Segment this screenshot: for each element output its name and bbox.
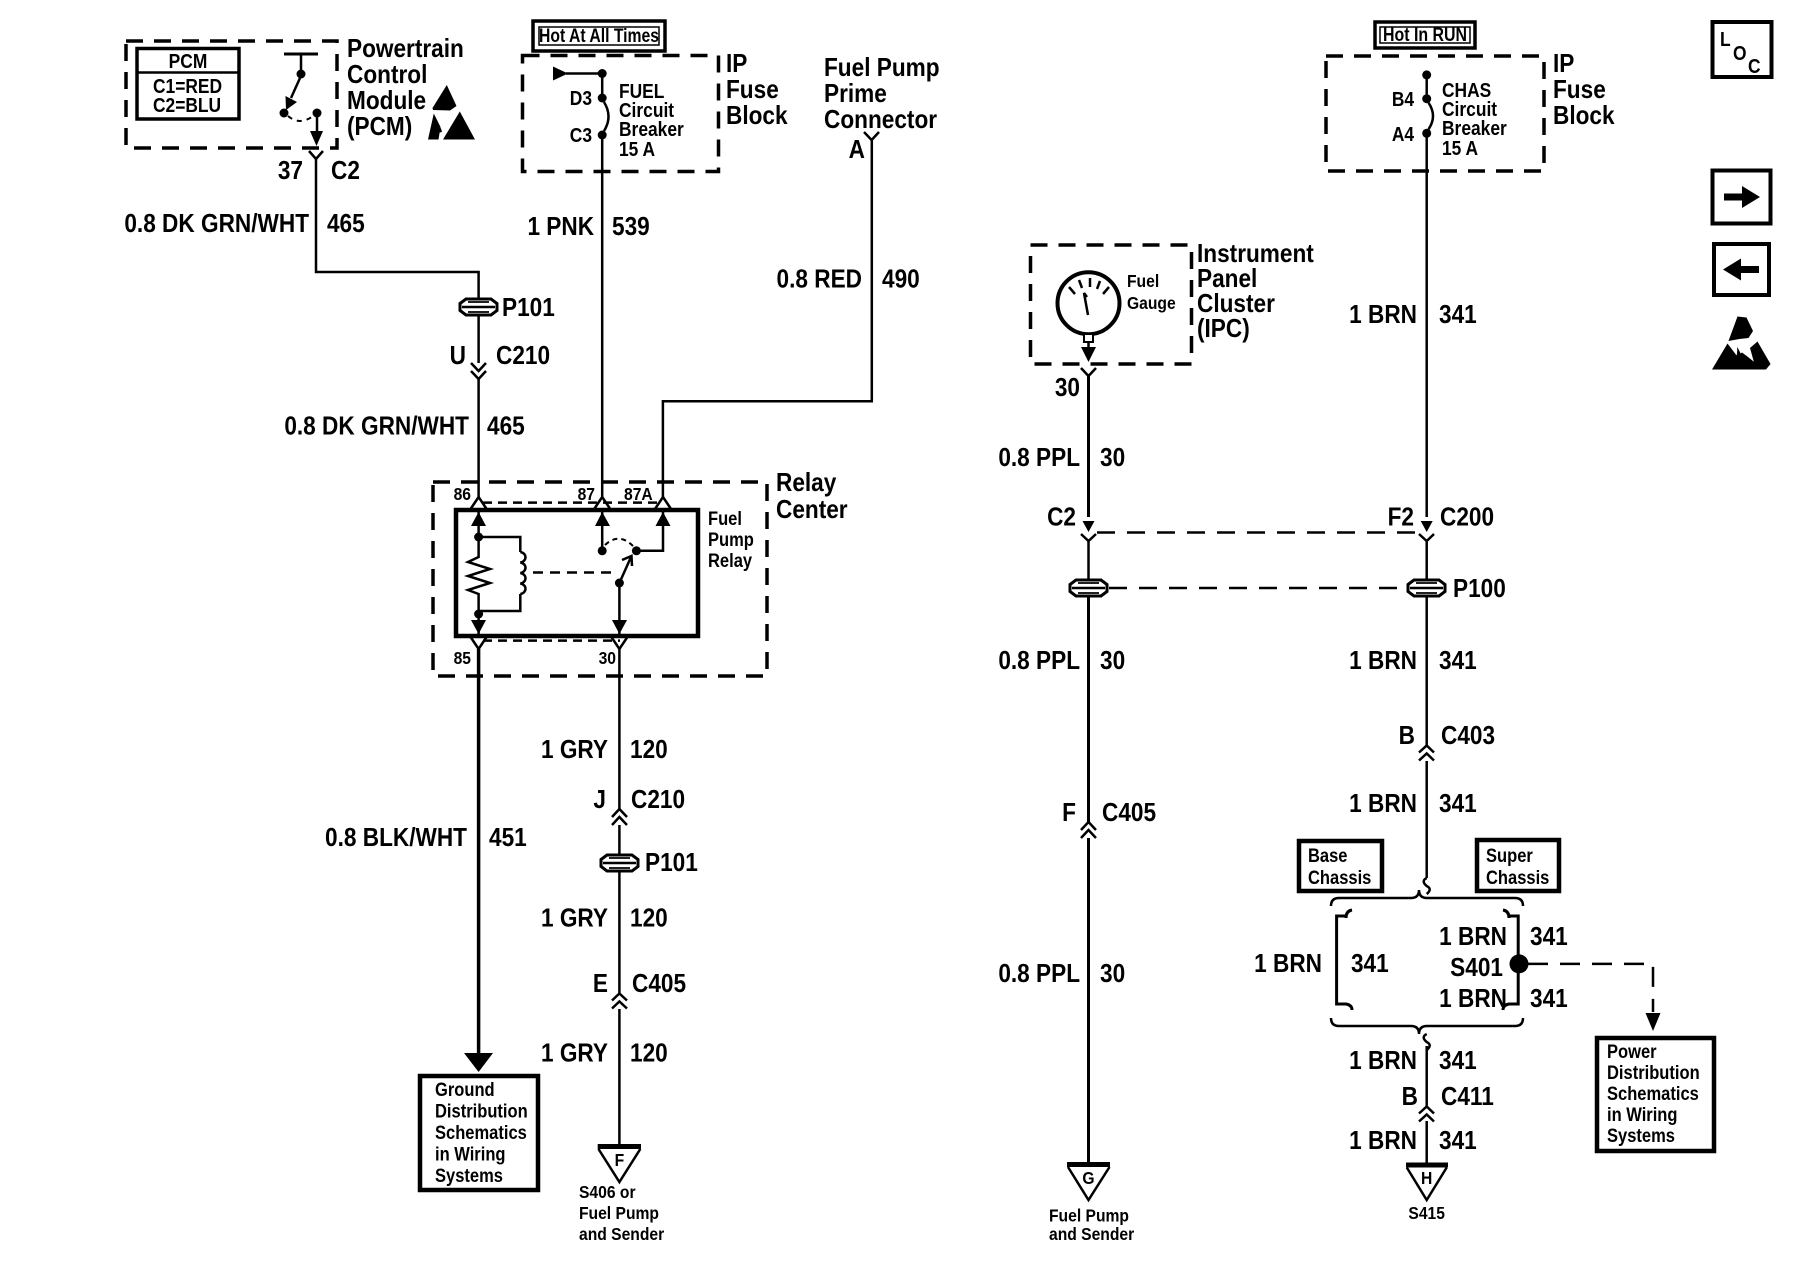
svg-text:(IPC): (IPC)	[1197, 315, 1250, 344]
svg-text:Module: Module	[347, 87, 426, 116]
label 1 BRN 341 (base chassis)	[1254, 950, 1389, 979]
svg-text:(PCM): (PCM)	[347, 113, 412, 142]
destination triangle G	[1067, 1165, 1110, 1201]
label 0.8 PPL 30 (1)	[998, 444, 1125, 473]
wire to P101	[618, 825, 621, 855]
wire C2 to P100	[1087, 541, 1090, 580]
label Powertrain Control Module (PCM)	[347, 35, 464, 142]
wire 1 BRN 341 (breaker to C200)	[1425, 133, 1428, 517]
wire 0.8 PPL 30 (P100 to C405)	[1087, 596, 1090, 822]
svg-text:IP: IP	[726, 50, 747, 79]
inductor L relay coil	[479, 537, 526, 611]
svg-text:1 PNK: 1 PNK	[527, 213, 594, 242]
node coil bottom junction	[474, 610, 483, 619]
svg-text:D3: D3	[570, 87, 592, 109]
forward arrow icon	[1713, 171, 1771, 224]
svg-text:O: O	[1733, 42, 1747, 64]
Instrument Panel Cluster dashed box	[1031, 245, 1192, 364]
svg-text:Super: Super	[1486, 845, 1533, 866]
node contact 87A	[632, 546, 641, 555]
super chassis bracket	[1503, 910, 1518, 1010]
pin 87A chevron	[655, 497, 671, 509]
svg-text:L: L	[1720, 28, 1731, 50]
svg-text:Fuse: Fuse	[726, 76, 779, 105]
pin 85 chevron	[471, 637, 487, 649]
svg-text:Center: Center	[776, 496, 848, 525]
label 1 PNK 539	[527, 213, 649, 242]
svg-text:S415: S415	[1408, 1203, 1445, 1223]
svg-text:1 BRN: 1 BRN	[1439, 985, 1507, 1014]
wire 465 to relay pin 86	[477, 379, 480, 497]
svg-text:0.8 DK GRN/WHT: 0.8 DK GRN/WHT	[124, 210, 309, 239]
svg-text:Fuel Pump: Fuel Pump	[579, 1203, 659, 1223]
pass-through grommet P101 (upper)	[460, 294, 555, 323]
svg-text:Connector: Connector	[824, 106, 938, 135]
P100 dashed link	[1109, 587, 1407, 590]
PCM internal switch	[280, 54, 324, 146]
svg-text:Gauge: Gauge	[1127, 293, 1176, 313]
pass-through grommet P101 (lower)	[601, 849, 698, 878]
svg-text:1 BRN: 1 BRN	[1349, 301, 1417, 330]
pass-through grommet P100 (left)	[1070, 580, 1107, 596]
svg-text:30: 30	[599, 648, 616, 668]
svg-text:87A: 87A	[624, 484, 653, 504]
svg-text:1 BRN: 1 BRN	[1349, 790, 1417, 819]
svg-text:1 BRN: 1 BRN	[1439, 923, 1507, 952]
wire F2 to P100	[1425, 541, 1428, 580]
feed arrow	[553, 67, 607, 81]
label Fuel Gauge	[1127, 271, 1176, 313]
svg-text:Chassis: Chassis	[1486, 867, 1549, 888]
label 1 GRY 120 (3)	[541, 1039, 668, 1068]
label Fuel Pump and Sender	[1049, 1205, 1135, 1244]
destination triangle F	[598, 1147, 641, 1183]
svg-text:G: G	[1082, 1168, 1094, 1188]
ESD symbol small (next to Module)	[433, 85, 457, 111]
svg-text:0.8 PPL: 0.8 PPL	[998, 960, 1080, 989]
svg-text:0.8 BLK/WHT: 0.8 BLK/WHT	[325, 824, 467, 853]
Relay Center dashed box	[433, 482, 767, 676]
label 0.8 RED 490	[777, 265, 920, 294]
wire 0.8 PPL 30 (IPC to C200)	[1087, 376, 1090, 517]
svg-text:B: B	[1399, 722, 1415, 751]
splice group bottom brace	[1331, 1018, 1523, 1050]
svg-text:F2: F2	[1388, 503, 1414, 532]
pass-through grommet P100 (right)	[1408, 575, 1506, 604]
ground arrowhead	[464, 1053, 493, 1072]
svg-text:37: 37	[278, 157, 303, 186]
svg-text:120: 120	[630, 904, 668, 933]
label 0.8 BLK/WHT 451	[325, 824, 527, 853]
IP fuse block dashed box (right)	[1326, 56, 1544, 171]
svg-text:30: 30	[1100, 960, 1125, 989]
back arrow icon	[1714, 244, 1769, 295]
svg-text:Chassis: Chassis	[1308, 867, 1371, 888]
svg-text:30: 30	[1100, 444, 1125, 473]
svg-text:86: 86	[454, 484, 471, 504]
svg-text:Distribution: Distribution	[435, 1100, 528, 1121]
svg-text:Pump: Pump	[708, 529, 754, 550]
in-line connector B C403	[1399, 722, 1495, 761]
pin 87 chevron	[594, 497, 610, 509]
wire 0.8 RED 490 to relay pin 87A	[663, 140, 872, 497]
wire 465 upper (PCM to P101)	[316, 159, 479, 299]
svg-text:1 BRN: 1 BRN	[1349, 1047, 1417, 1076]
svg-text:30: 30	[1055, 374, 1080, 403]
svg-text:Schematics: Schematics	[435, 1122, 527, 1143]
svg-text:Prime: Prime	[824, 80, 887, 109]
label Instrument Panel Cluster (IPC)	[1197, 240, 1314, 344]
svg-text:1 BRN: 1 BRN	[1349, 647, 1417, 676]
svg-text:Control: Control	[347, 61, 427, 90]
svg-text:0.8 PPL: 0.8 PPL	[998, 444, 1080, 473]
Base Chassis box	[1299, 841, 1382, 891]
wire pin 87A internal lead	[636, 510, 670, 551]
svg-text:341: 341	[1530, 985, 1568, 1014]
IP fuse block dashed box (left)	[523, 56, 719, 172]
wire 1 GRY 120 (to fuel pump)	[618, 1009, 621, 1146]
svg-text:120: 120	[630, 736, 668, 765]
in-line connector E C405	[593, 970, 686, 1009]
dashed link S401 to power distribution note	[1528, 964, 1661, 1031]
wire 1 GRY 120 (P101 to E C405)	[618, 871, 621, 994]
svg-text:Fuel: Fuel	[708, 508, 742, 529]
label Relay Center	[776, 469, 848, 525]
LOC icon	[1713, 22, 1772, 77]
svg-text:Block: Block	[726, 102, 788, 131]
wire pin 85 internal lead	[471, 593, 486, 634]
label 0.8 DK GRN/WHT 465 (upper)	[124, 210, 364, 239]
label S406 or Fuel Pump and Sender	[579, 1182, 665, 1244]
svg-text:341: 341	[1439, 1047, 1477, 1076]
ESD symbol large (next to PCM)	[428, 112, 475, 140]
svg-text:IP: IP	[1553, 50, 1574, 79]
svg-text:C: C	[1748, 55, 1761, 77]
svg-text:C3: C3	[570, 124, 592, 146]
svg-text:341: 341	[1439, 790, 1477, 819]
in-line connector J C210	[593, 786, 685, 825]
splice S401 dot	[1510, 954, 1529, 973]
labels 1 BRN 341 / S401 (super chassis)	[1439, 923, 1568, 1014]
svg-text:in Wiring: in Wiring	[435, 1143, 506, 1164]
wire pin 86 internal lead	[471, 510, 486, 558]
wire 1 BRN 341 (C403 to chassis split)	[1425, 761, 1428, 878]
resistor R (relay suppression)	[468, 557, 490, 594]
label 0.8 PPL 30 (2)	[998, 647, 1125, 676]
fuel pump relay box	[456, 510, 698, 636]
svg-text:F: F	[1062, 799, 1076, 828]
fuel gauge	[1058, 272, 1120, 362]
svg-text:in Wiring: in Wiring	[1607, 1104, 1678, 1125]
svg-text:P100: P100	[1453, 575, 1506, 604]
svg-text:465: 465	[487, 412, 525, 441]
svg-text:Hot At All Times: Hot At All Times	[539, 26, 659, 47]
wire 1 BRN 341 (C411 to S415)	[1425, 1121, 1428, 1165]
svg-text:U: U	[450, 342, 466, 371]
svg-text:539: 539	[612, 213, 650, 242]
svg-text:C2: C2	[1047, 503, 1076, 532]
splice group top brace	[1331, 878, 1523, 906]
relay connector pin line top	[483, 501, 663, 504]
wire 1 PNK 539 to relay pin 87	[601, 135, 604, 497]
wire 0.8 PPL 30 (C405 to fuel pump)	[1087, 838, 1090, 1164]
svg-text:341: 341	[1439, 1127, 1477, 1156]
svg-text:Distribution: Distribution	[1607, 1062, 1700, 1083]
pin 86 chevron	[471, 497, 487, 509]
connector pin A chevron	[849, 132, 879, 164]
relay actuation dashed link	[533, 571, 613, 574]
label Fuel Pump Relay	[708, 508, 754, 571]
label 1 BRN 341 (1)	[1349, 301, 1477, 330]
connector F2 at C200	[1388, 503, 1494, 541]
svg-text:1 GRY: 1 GRY	[541, 904, 608, 933]
wire below splice group	[1425, 1046, 1428, 1107]
in-line connector U C210	[450, 315, 550, 379]
svg-text:C210: C210	[496, 342, 550, 371]
in-line connector F C405	[1062, 799, 1156, 838]
svg-text:Systems: Systems	[1607, 1125, 1675, 1146]
Hot In RUN label box	[1375, 22, 1475, 48]
svg-text:0.8 PPL: 0.8 PPL	[998, 647, 1080, 676]
svg-text:Hot In RUN: Hot In RUN	[1383, 25, 1467, 46]
svg-text:H: H	[1421, 1168, 1432, 1188]
svg-text:P101: P101	[502, 294, 555, 323]
connector C2 at C200	[1047, 503, 1096, 541]
svg-text:Ground: Ground	[435, 1079, 495, 1100]
PCM module dashed box	[126, 41, 337, 148]
CHAS circuit breaker 15A	[1392, 70, 1507, 159]
svg-text:1 GRY: 1 GRY	[541, 736, 608, 765]
svg-text:Powertrain: Powertrain	[347, 35, 464, 64]
svg-text:341: 341	[1351, 950, 1389, 979]
svg-text:Fuse: Fuse	[1553, 76, 1606, 105]
C200 dashed connector line	[1097, 531, 1419, 534]
svg-text:87: 87	[578, 484, 595, 504]
svg-text:341: 341	[1530, 923, 1568, 952]
svg-text:C403: C403	[1441, 722, 1495, 751]
svg-text:1 GRY: 1 GRY	[541, 1039, 608, 1068]
svg-text:A: A	[849, 136, 865, 165]
in-line connector B C411	[1402, 1083, 1494, 1122]
label 1 BRN 341 (2)	[1349, 647, 1477, 676]
svg-text:120: 120	[630, 1039, 668, 1068]
svg-text:1 BRN: 1 BRN	[1349, 1127, 1417, 1156]
svg-text:A4: A4	[1392, 123, 1415, 145]
wire pin 30 internal lead	[612, 583, 627, 634]
svg-text:and Sender: and Sender	[579, 1224, 665, 1244]
PCM pin 37 connector C2 chevron	[278, 151, 360, 185]
svg-text:C2: C2	[331, 157, 360, 186]
svg-text:J: J	[593, 786, 606, 815]
svg-text:451: 451	[489, 824, 527, 853]
svg-text:Fuel Pump: Fuel Pump	[824, 54, 940, 83]
svg-text:C2=BLU: C2=BLU	[153, 94, 221, 116]
IPC pin 30 chevron	[1055, 368, 1096, 402]
base chassis bracket	[1337, 910, 1352, 1010]
svg-text:Systems: Systems	[435, 1165, 503, 1186]
switch SW relay armature	[615, 556, 632, 588]
svg-text:15 A: 15 A	[1442, 137, 1479, 159]
svg-text:Block: Block	[1553, 102, 1615, 131]
svg-text:E: E	[593, 970, 608, 999]
label 0.8 PPL 30 (3)	[998, 960, 1125, 989]
destination triangle H	[1406, 1165, 1448, 1200]
label 1 BRN 341 (3)	[1349, 790, 1477, 819]
label 1 GRY 120 (1)	[541, 736, 668, 765]
FUEL circuit breaker 15A	[570, 74, 684, 161]
label IP Fuse Block (right)	[1553, 50, 1615, 131]
svg-text:15 A: 15 A	[619, 138, 656, 160]
svg-text:Base: Base	[1308, 845, 1348, 866]
svg-text:PCM: PCM	[169, 50, 208, 72]
label 1 BRN 341 (4)	[1349, 1047, 1477, 1076]
PCM connector id box	[137, 49, 239, 120]
svg-text:Fuel Pump: Fuel Pump	[1049, 1205, 1129, 1225]
Ground Distribution note box	[420, 1076, 538, 1190]
svg-text:C405: C405	[632, 970, 686, 999]
svg-text:Schematics: Schematics	[1607, 1083, 1699, 1104]
svg-text:and Sender: and Sender	[1049, 1224, 1135, 1244]
svg-text:341: 341	[1439, 301, 1477, 330]
svg-text:F: F	[615, 1150, 625, 1170]
label 0.8 DK GRN/WHT 465 (lower)	[284, 412, 524, 441]
svg-text:S401: S401	[1450, 954, 1503, 983]
svg-text:490: 490	[882, 265, 920, 294]
svg-text:C405: C405	[1102, 799, 1156, 828]
svg-text:0.8 DK GRN/WHT: 0.8 DK GRN/WHT	[284, 412, 469, 441]
svg-text:C210: C210	[631, 786, 685, 815]
svg-text:341: 341	[1439, 647, 1477, 676]
wire 1 GRY 120 (relay to J C210)	[618, 649, 621, 809]
svg-text:85: 85	[454, 648, 471, 668]
svg-text:Power: Power	[1607, 1041, 1657, 1062]
svg-text:P101: P101	[645, 849, 698, 878]
Super Chassis box	[1477, 840, 1559, 891]
label Fuel Pump Prime Connector	[824, 54, 940, 135]
svg-text:1 BRN: 1 BRN	[1254, 950, 1322, 979]
svg-text:Fuel: Fuel	[1127, 271, 1159, 291]
relay connector pin line bottom	[483, 639, 620, 642]
svg-text:465: 465	[327, 210, 365, 239]
Power Distribution note box	[1597, 1038, 1714, 1151]
svg-text:C411: C411	[1441, 1083, 1494, 1112]
svg-text:C200: C200	[1440, 503, 1494, 532]
wire pin 87 internal lead	[595, 510, 610, 548]
pin 30 chevron	[611, 637, 627, 649]
node contact 87	[598, 546, 607, 555]
svg-text:30: 30	[1100, 647, 1125, 676]
node coil top junction	[474, 533, 483, 542]
svg-text:0.8 RED: 0.8 RED	[777, 265, 862, 294]
wire 0.8 BLK/WHT 451	[477, 649, 481, 1055]
svg-text:Relay: Relay	[776, 469, 837, 498]
svg-text:S406 or: S406 or	[579, 1182, 636, 1202]
svg-text:B: B	[1402, 1083, 1418, 1112]
label IP Fuse Block (left)	[726, 50, 788, 131]
Hot At All Times label box	[533, 21, 665, 51]
label 1 GRY 120 (2)	[541, 904, 668, 933]
svg-text:B4: B4	[1392, 88, 1415, 110]
wire 1 BRN 341 (P100 to C403)	[1425, 596, 1428, 746]
label 1 BRN 341 (5)	[1349, 1127, 1477, 1156]
svg-text:Relay: Relay	[708, 550, 752, 571]
switch throw dashed arc	[605, 539, 633, 546]
ESD warning icon	[1712, 317, 1771, 370]
